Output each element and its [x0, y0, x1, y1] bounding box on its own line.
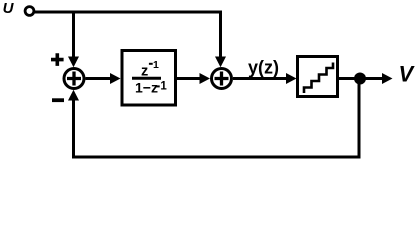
arrowhead into summer 2 top [215, 57, 226, 68]
svg-text:1: 1 [153, 59, 159, 71]
summing junction 1 [64, 69, 84, 89]
wire feedback path [74, 84, 360, 157]
wire branch down to summer 1 [72, 12, 75, 57]
wire output node to V [360, 77, 383, 80]
junction dot output node [354, 73, 366, 85]
svg-text:U: U [3, 0, 15, 17]
svg-text:1−z: 1−z [135, 79, 158, 95]
wire summer 2 to quantizer [233, 77, 287, 80]
minus sign label at summer 1 feedback input [52, 98, 64, 102]
arrowhead into integrator [110, 73, 121, 84]
wire summer 1 to integrator [86, 77, 112, 80]
quantizer block [298, 57, 338, 97]
integrator fraction bar [132, 77, 161, 80]
arrowhead into summer 1 top [68, 57, 79, 68]
quantizer staircase symbol [304, 63, 333, 94]
wire integrator to summer 2 [177, 77, 200, 80]
integrator block H(z) [122, 51, 176, 106]
svg-text:V: V [399, 62, 416, 87]
wire top feedforward from U [35, 12, 221, 57]
arrowhead feedback into summer 1 bottom [68, 90, 79, 101]
arrowhead into quantizer [286, 73, 297, 84]
wire quantizer to output node [339, 77, 361, 80]
input terminal circle U [25, 7, 34, 16]
svg-text:y(z): y(z) [248, 57, 279, 77]
svg-text:1: 1 [160, 80, 167, 92]
plus sign label at summer 1 input [51, 53, 64, 66]
summing junction 2 [212, 69, 232, 89]
arrowhead at V output [382, 73, 393, 84]
arrowhead into summer 2 [200, 73, 211, 84]
